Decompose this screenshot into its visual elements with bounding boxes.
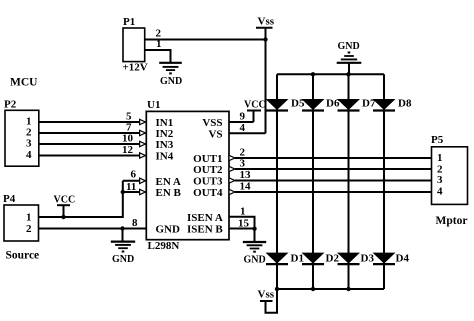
svg-text:4: 4 xyxy=(437,186,443,198)
svg-text:GND: GND xyxy=(112,254,134,265)
wire column 1 xyxy=(276,74,278,312)
node junction bottom rail / D3 xyxy=(346,287,350,291)
svg-text:15: 15 xyxy=(238,217,250,229)
node junction bottom rail / D2 xyxy=(311,287,315,291)
svg-text:1: 1 xyxy=(156,38,162,50)
svg-text:11: 11 xyxy=(126,181,136,193)
node junction top rail / D6 xyxy=(311,72,315,76)
svg-text:13: 13 xyxy=(240,169,252,181)
wire P1 pin 1 to ground xyxy=(145,38,171,63)
svg-text:L298N: L298N xyxy=(148,240,180,252)
svg-text:VS: VS xyxy=(208,128,222,140)
pin marker IN1 xyxy=(140,119,146,124)
wire VSS pin 9 to VCC xyxy=(229,111,254,123)
diode D6 xyxy=(302,98,340,111)
svg-text:D4: D4 xyxy=(396,252,410,264)
svg-text:14: 14 xyxy=(240,181,252,193)
wire OUT4 to P5.4, pin 14 xyxy=(235,181,432,193)
pin marker IN3 xyxy=(140,141,146,146)
svg-text:Source: Source xyxy=(6,250,40,262)
wire EN A, pin 6 xyxy=(123,169,140,181)
svg-text:IN4: IN4 xyxy=(156,151,174,163)
svg-text:D3: D3 xyxy=(361,252,375,264)
ground GND under ISEN xyxy=(243,229,266,266)
power flag VCC right xyxy=(244,100,266,111)
pin marker IN4 xyxy=(140,153,146,158)
svg-text:4: 4 xyxy=(240,122,246,134)
wire P1 pin 2 to Vss node xyxy=(145,28,266,40)
wire ISEN A pin 1 xyxy=(229,205,255,228)
wire column 4 xyxy=(383,74,385,289)
wire OUT1 to P5.1, pin 2 xyxy=(235,147,432,159)
svg-text:VCC: VCC xyxy=(54,194,76,205)
svg-text:4: 4 xyxy=(26,149,32,161)
op-amp U1 L298N IC body xyxy=(146,99,229,252)
svg-text:1: 1 xyxy=(437,152,443,164)
svg-text:Vss: Vss xyxy=(258,16,275,28)
power flag VCC left xyxy=(54,194,76,217)
svg-text:P5: P5 xyxy=(431,134,444,146)
pin marker OUT2 xyxy=(229,166,235,171)
svg-text:GND: GND xyxy=(156,224,181,236)
wire ISEN B pin 15 xyxy=(229,217,255,229)
pin marker OUT4 xyxy=(229,189,235,194)
svg-text:U1: U1 xyxy=(147,99,160,111)
connector P5 xyxy=(431,134,468,227)
svg-text:VCC: VCC xyxy=(244,100,266,111)
power flag Vss bottom xyxy=(258,289,278,313)
svg-text:OUT2: OUT2 xyxy=(193,164,223,176)
node junction EN B tap xyxy=(121,190,125,194)
svg-text:D1: D1 xyxy=(291,252,304,264)
svg-text:Vss: Vss xyxy=(258,289,275,301)
wire P4.1 to EN vertical xyxy=(39,181,123,217)
svg-text:D2: D2 xyxy=(326,252,340,264)
diode D4 xyxy=(373,252,410,264)
node junction GND tap xyxy=(120,226,124,230)
svg-text:GND: GND xyxy=(338,41,360,52)
wire OUT2 to P5.2, pin 3 xyxy=(235,158,432,170)
svg-text:2: 2 xyxy=(26,223,32,235)
diode D3 xyxy=(337,252,374,264)
svg-text:GND: GND xyxy=(244,255,266,266)
wire P2.2 to IN2, pin 7 xyxy=(39,122,140,134)
svg-text:1: 1 xyxy=(26,212,32,224)
node junction top rail / GND stub xyxy=(346,72,350,76)
svg-text:12: 12 xyxy=(122,144,134,156)
wire Vss vertical down to VS pin 4 xyxy=(265,40,267,134)
svg-text:VSS: VSS xyxy=(202,117,222,129)
svg-text:ISEN B: ISEN B xyxy=(187,224,223,236)
wire P2.4 to IN4, pin 12 xyxy=(39,144,140,156)
pin marker IN2 xyxy=(140,130,146,135)
svg-text:Mptor: Mptor xyxy=(436,215,468,227)
connector P1 xyxy=(123,16,148,74)
svg-text:ISEN A: ISEN A xyxy=(187,212,223,224)
wire P4.2 to GND pin 8 xyxy=(39,217,147,229)
svg-text:P2: P2 xyxy=(4,99,17,111)
node junction bottom rail / D1 xyxy=(275,287,279,291)
wire bottom rail xyxy=(277,288,384,290)
power flag Vss top xyxy=(256,16,275,40)
connector P2 xyxy=(4,99,39,167)
svg-text:MCU: MCU xyxy=(10,77,38,89)
wire P2.3 to IN3, pin 10 xyxy=(39,133,140,145)
svg-text:D8: D8 xyxy=(398,98,412,110)
diode D2 xyxy=(302,252,340,264)
svg-text:P1: P1 xyxy=(123,16,135,28)
svg-text:EN B: EN B xyxy=(156,187,182,199)
svg-text:+12V: +12V xyxy=(123,62,148,74)
svg-text:P4: P4 xyxy=(3,193,16,205)
svg-text:OUT4: OUT4 xyxy=(193,187,223,199)
node junction VCC/P4.1 xyxy=(61,215,65,219)
wire EN B, pin 11 xyxy=(123,181,140,193)
wire top rail xyxy=(277,73,384,75)
node junction ISEN xyxy=(252,227,256,231)
ground GND under pin 8 wire xyxy=(111,229,135,266)
wire column 2 xyxy=(312,74,314,289)
diode D8 xyxy=(373,98,412,111)
ground GND flag above top rail (inverted) xyxy=(337,41,362,74)
connector P4 xyxy=(3,193,39,262)
pin marker OUT3 xyxy=(229,178,235,183)
svg-text:IN3: IN3 xyxy=(156,139,174,151)
ground GND under P1 xyxy=(159,63,182,87)
wire OUT3 to P5.3, pin 13 xyxy=(235,169,432,181)
wire P2.1 to IN1, pin 5 xyxy=(39,111,140,123)
diode D5 xyxy=(266,98,305,111)
diode D1 xyxy=(266,252,304,264)
svg-text:3: 3 xyxy=(240,158,246,170)
pin marker EN A xyxy=(140,178,146,183)
diode D7 xyxy=(337,98,376,111)
svg-text:OUT3: OUT3 xyxy=(193,176,223,188)
pin marker EN B xyxy=(140,189,146,194)
svg-text:3: 3 xyxy=(437,174,443,186)
wire VS pin 4 xyxy=(229,122,266,134)
node junction P1.2/Vss xyxy=(263,37,267,41)
svg-text:9: 9 xyxy=(240,111,246,123)
svg-text:3: 3 xyxy=(26,138,32,150)
svg-text:8: 8 xyxy=(132,217,138,229)
svg-text:1: 1 xyxy=(240,205,246,217)
svg-text:6: 6 xyxy=(131,169,137,181)
wire column 3 xyxy=(348,74,350,289)
svg-text:10: 10 xyxy=(122,133,134,145)
svg-text:EN A: EN A xyxy=(156,176,181,188)
pin marker OUT1 xyxy=(229,155,235,160)
svg-text:GND: GND xyxy=(160,76,182,87)
